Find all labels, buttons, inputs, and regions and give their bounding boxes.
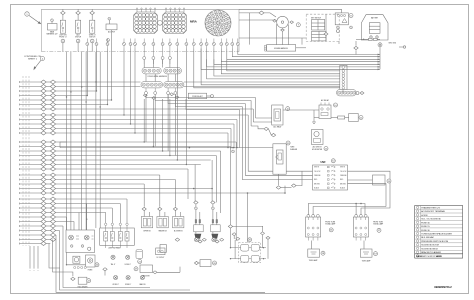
front turn signal lamp assembly right [353,214,368,240]
splice diamond a [41,158,46,162]
wire row left segment [20,141,41,143]
junction dot [227,147,228,148]
junction dot [153,146,154,147]
pin [232,150,235,153]
splice diamond a [41,122,46,126]
wire [262,235,264,248]
balloon 19 [374,252,378,256]
wire bend down to switch splice [159,175,161,207]
wire bend down [187,169,189,199]
wire [234,240,236,259]
svg-text:WIPER SW: WIPER SW [143,231,151,233]
fuse glyph [337,14,339,16]
svg-text:SHEET 1: SHEET 1 [28,59,38,61]
balloon 14 [331,159,335,163]
wire to pin column [194,49,340,88]
wire [91,15,93,21]
wire from switch [62,43,64,52]
splice diamond [266,236,270,239]
splice diamond b [50,94,55,98]
wire [46,128,50,130]
wire [296,171,302,185]
wire [104,271,106,276]
wire [152,60,154,65]
wire row run [56,168,188,170]
wire [174,211,176,217]
wire row run [56,90,97,92]
wire row run [56,198,127,200]
splice diamond below [215,240,219,243]
splice diamond b [50,107,55,111]
wire terminal tick [19,207,21,209]
balloon 25 diode pack [248,238,252,242]
wire drop [130,49,132,125]
wire [77,15,79,21]
wire drop [185,49,187,165]
splice diamond a [41,140,46,144]
battery terminal neg [370,36,372,38]
balloon 18 [321,251,325,255]
wire to pin column [214,59,340,76]
balloon 7 ignition [296,23,300,27]
splice diamond [324,33,328,36]
wire to ground bus [227,49,380,60]
svg-text:MADE: MADE [416,255,422,258]
wire [216,239,218,240]
wire row run [56,159,211,161]
wire to pin column [221,59,339,74]
wire row run continuation [184,81,340,83]
pin [107,39,110,42]
wire row left segment [20,164,41,166]
inline connector strip C [141,82,163,88]
pin [195,207,198,210]
wire [342,90,344,94]
wire [46,99,50,101]
circular connector MRA [205,10,231,36]
wire [325,14,327,32]
rocker switch S2 [76,20,81,33]
wire [284,186,286,193]
wire row left segment [20,81,41,83]
splice diamond b [50,178,55,182]
wire row left segment [20,159,41,161]
wire terminal tick [19,81,21,83]
splice diamond a [41,89,46,93]
wire row left segment [20,90,41,92]
turn signal switch box [373,175,386,185]
wire to UNF [245,134,312,175]
svg-text:ACCESSORY TERMINAL: ACCESSORY TERMINAL [421,210,446,213]
wire terminal tick [19,108,21,110]
wire [268,129,271,135]
splice diamond b [50,187,55,191]
splice diamond a [41,113,46,117]
splice diamond b [50,182,55,186]
wire row run [56,104,108,106]
svg-text:BLOWER SW: BLOWER SW [174,231,183,233]
wire [46,123,50,125]
trunk wire down [238,110,240,148]
wire row run [56,225,63,227]
wire to pin column [207,59,340,79]
wire [46,155,50,157]
splice diamond [276,186,281,189]
splice diamond a [41,94,46,98]
jog wire [175,95,242,107]
wire bend down [227,133,229,148]
wire bend down [194,165,196,202]
splice diamond a [41,206,46,210]
trunk wire down [250,101,252,127]
wire bend down [220,151,222,213]
wire [262,226,264,232]
wire terminal tick [19,203,21,205]
turn flasher module [273,144,286,174]
wire terminal tick [19,188,21,190]
horn [86,255,96,267]
pin [70,245,73,248]
leader arrow to main harness connector [29,16,40,24]
splice diamond a [41,85,46,89]
wire drop [143,99,145,142]
splice diamond a [41,167,46,171]
junction dot [230,147,231,148]
junction dot [100,106,101,107]
TURN SW A [194,220,204,232]
work light bulb 2 [126,276,130,280]
splice diamond a [41,178,46,182]
svg-text:NEG GND: NEG GND [389,43,397,45]
console connector pins row [86,39,240,49]
svg-text:SOL. OIL SOLENOID: SOL. OIL SOLENOID [421,219,441,221]
splice diamond b [50,220,55,224]
wire [212,232,214,234]
right pin column pins [342,66,345,89]
wire [46,230,50,232]
top feed wire to fuse block [239,9,342,13]
harness drop wire [66,52,68,230]
splice diamond [271,133,275,136]
legend footer [415,253,463,255]
wire drop [123,49,125,116]
splice diamond [103,268,107,271]
wire terminal tick [19,239,21,241]
splice diamond [292,184,297,187]
splice diamond b [50,163,55,167]
svg-text:CONTINUED ON: CONTINUED ON [24,56,41,58]
legend rows [416,206,452,258]
stub end 1 [29,268,31,271]
ground stud small [336,30,339,33]
wire [62,15,64,21]
wire [143,64,145,68]
svg-text:HORN: HORN [88,270,92,272]
wire row left segment [20,108,41,110]
wires rows 82 86 to pin column [339,81,341,83]
wire row run [56,203,121,205]
splice diamond b [50,215,55,219]
wire bend [60,142,67,148]
wire terminal tick [19,221,21,223]
lamp feed wires [308,204,365,216]
svg-text:WORK LT: WORK LT [112,284,118,286]
wire drop to panel pin [111,208,113,223]
wire [145,74,147,82]
diode pack dashed box [239,243,261,263]
wire row left segment [20,128,41,130]
splice diamond b [50,154,55,158]
wire [212,210,214,225]
balloon 12 [324,147,328,151]
wire from switch [77,43,79,52]
wire [46,179,50,181]
splice diamond above switch [158,207,162,210]
svg-text:YELLOW: YELLOW [314,171,321,173]
splice diamond above [194,201,198,204]
dome light bulb [126,255,130,259]
wire row left segment [20,221,41,223]
junction dot [236,147,237,148]
wire [212,204,214,207]
junction dot [134,132,135,133]
wire [376,38,378,40]
svg-text:RESISTOR: RESISTOR [142,276,149,278]
wire row run [56,146,231,148]
wire terminal tick [19,95,21,97]
wire row left segment [20,168,41,170]
inline connector strip A [142,68,161,74]
trunk wire down [247,115,249,130]
wire [111,45,113,100]
ignition switch [277,16,289,28]
inline connector strip D [164,82,184,88]
junction dot [107,104,108,105]
wire row run [56,81,141,83]
splice diamond b [50,211,55,215]
svg-text:FRONT TURN: FRONT TURN [373,222,383,224]
aux box [160,245,166,253]
junction dot [70,91,71,92]
wire [46,119,50,121]
balloon 9 [286,107,290,111]
wire row run [56,128,231,130]
wire drop [86,49,88,96]
pin [350,26,353,29]
splice diamond b [50,233,55,237]
harness boundary dashed line 3 [28,76,30,246]
wire [162,60,164,68]
svg-text:LIGHT SW: LIGHT SW [59,34,67,36]
pin [337,26,340,29]
wire drop [78,213,80,231]
svg-text:BLK. ENG/AC: BLK. ENG/AC [421,236,434,239]
splice diamond a [41,98,46,102]
wire [46,86,50,88]
secondary inline pins [143,49,172,65]
junction dot [123,114,124,115]
harness drop wire [95,52,97,228]
junction dot [85,101,86,102]
wire [249,13,251,45]
wire drop [86,204,88,231]
wire [157,271,180,273]
svg-text:DOME LT: DOME LT [125,264,131,266]
splice diamond b [50,122,55,126]
wire [169,60,171,68]
junction dot [130,123,131,124]
long wire y188.5 [193,188,195,190]
splice diamond a [41,163,46,167]
splice diamond b [50,118,55,122]
svg-text:TRANSMITTER 12V: TRANSMITTER 12V [421,206,440,209]
splice diamond a [41,118,46,122]
main harness connector P1 [48,24,58,31]
splice diamond b [50,229,55,233]
light switch panel box [100,228,135,245]
wire drop [176,49,178,161]
wire [46,164,50,166]
wire bend down to switch splice [143,184,145,207]
connector splice above switch S1 [61,11,66,14]
battery terminal pos [376,36,378,38]
stub wire 3 [37,246,39,268]
wire terminal tick [19,86,21,88]
splice diamond [264,127,268,130]
wire terminal tick [19,174,21,176]
wire [247,193,249,243]
splice diamond a [41,80,46,84]
splice diamond a [41,127,46,131]
wire [46,239,50,241]
splice diamond [236,237,240,240]
wire [154,74,156,82]
stub wire 2 [33,246,35,268]
wire row left segment [20,203,41,205]
UNF exit wires right [348,171,391,203]
junction dot [189,147,191,149]
fuse holder F1 [335,13,348,25]
wire bend down [230,129,232,148]
wire row left segment [20,132,41,134]
wire to ground bus [238,49,380,55]
switch assembly BLOWER SW [173,217,184,228]
pin [212,207,215,210]
wire [46,174,50,176]
wire [143,211,145,217]
wire [195,232,197,234]
wire [46,114,50,116]
wire drop bottom run [56,235,265,292]
svg-text:PRESSURE SWITCH BOOM: PRESSURE SWITCH BOOM [421,241,448,243]
splice diamond b [50,80,55,84]
wire row run [56,123,234,125]
wire terminal tick [19,216,21,218]
wire [46,212,50,214]
wire row left segment [20,99,41,101]
svg-text:TURN: TURN [290,147,294,149]
wire terminal tick [19,155,21,157]
wire drop [107,49,109,105]
ground bus vertical [379,45,381,70]
trunk wire down [255,98,257,119]
wire drop [162,99,164,151]
wire [283,109,319,111]
lamp socket left [308,249,320,257]
splice diamond a [41,242,46,246]
wire drop [174,95,176,156]
wire terminal tick [19,234,21,236]
lamp socket right [360,249,372,257]
wire [267,240,269,259]
diode module row [241,255,249,262]
wire terminal tick [19,179,21,181]
wire row left segment [20,119,41,121]
junction dot [87,95,88,96]
svg-text:FRONT LT: FRONT LT [59,36,66,38]
balloon 16 [329,228,333,232]
splice diamond b [50,149,55,153]
splice diamond b [50,89,55,93]
junction dot [162,150,163,151]
wire row run [56,119,237,121]
wire [216,212,218,225]
wire [148,212,150,217]
balloon 10 [334,103,338,107]
wire row left segment [20,188,41,190]
wire terminal tick [19,141,21,143]
wire [251,126,264,129]
wire row left segment [20,114,41,116]
long horizontal bus wire y147.6 [60,147,273,149]
splice diamond b [50,173,55,177]
wire drop bottom run [63,226,150,288]
splice diamond a [41,211,46,215]
svg-text:MRA: MRA [190,19,198,23]
splice diamond above [211,201,215,204]
wire terminal tick [19,99,21,101]
splice diamond b [50,202,55,206]
diode module row [241,244,249,251]
splice diamond battery feed [354,46,358,49]
ground stud [378,43,382,47]
svg-text:FRONT TURN: FRONT TURN [325,222,335,224]
battery cell box [369,23,380,34]
wire [46,198,50,200]
wire [46,159,50,161]
resistor module box [349,114,359,122]
splice diamond a [41,191,46,195]
key switch dashed boundary [306,14,339,41]
splice diamond b [50,113,55,117]
wire bend down [236,120,238,148]
svg-text:99999SN733-2: 99999SN733-2 [434,285,452,289]
wire [239,37,306,39]
wire [108,20,110,24]
splice diamond a [41,149,46,153]
wire to pin column [201,49,340,85]
svg-text:SWITCH: SWITCH [89,36,95,38]
ground terminal mark [399,46,403,48]
wire row left segment [20,150,41,152]
inline connector strip E [337,90,357,96]
terminal [88,247,91,250]
junction dot [81,86,82,87]
junction dot [96,90,97,91]
TURN SW B [211,220,221,232]
splice diamond b [50,238,55,242]
pin [356,92,359,95]
